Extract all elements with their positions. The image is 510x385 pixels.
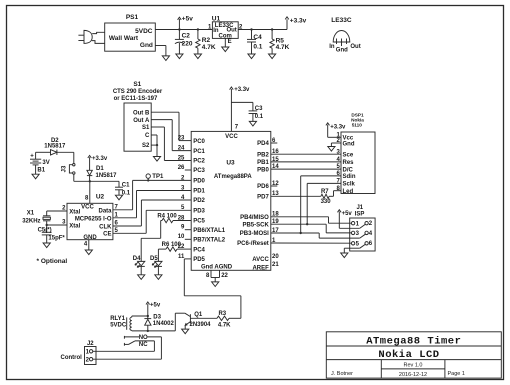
ground S1 <box>153 157 160 162</box>
svg-text:Data: Data <box>98 209 112 215</box>
wire MOSI to ISP pin 4 <box>319 233 365 238</box>
wire R4 to D4 <box>141 221 161 262</box>
svg-text:PB2: PB2 <box>257 152 269 158</box>
svg-text:2N3904: 2N3904 <box>190 322 212 328</box>
wire U2 pin1 to PD1 <box>113 191 191 218</box>
svg-text:0.1: 0.1 <box>253 44 262 51</box>
wire R6 to D5 <box>157 249 159 261</box>
svg-text:PD2: PD2 <box>193 198 205 204</box>
wire PB0 to D/C <box>271 168 341 170</box>
wire 3.3V node to C1 <box>90 180 119 182</box>
wire SCK to ISP pin 3 <box>326 224 351 233</box>
title block <box>326 332 501 378</box>
svg-text:+3.3v: +3.3v <box>234 87 250 93</box>
svg-text:PD3: PD3 <box>193 209 205 215</box>
svg-text:10: 10 <box>178 234 185 240</box>
svg-text:R6 100: R6 100 <box>162 242 182 248</box>
test point TP1 <box>146 174 164 182</box>
pin stub PD6 pin 12 <box>271 185 278 187</box>
U3 left pin labels <box>193 139 226 263</box>
wire Q1 emitter to ground <box>184 325 186 329</box>
svg-text:PC4: PC4 <box>193 247 205 253</box>
ground U3 <box>212 282 219 287</box>
svg-text:+: + <box>30 154 34 160</box>
pin stub PD4 pin 6 <box>271 142 278 144</box>
pin stub PC3 pin 26 <box>185 169 191 171</box>
svg-text:PD5: PD5 <box>193 257 205 263</box>
wire NO to J2 pin 2 <box>93 337 161 359</box>
svg-text:Control: Control <box>61 355 83 361</box>
svg-text:CE: CE <box>103 231 111 237</box>
svg-text:PD7: PD7 <box>257 195 269 201</box>
ground C4 <box>248 54 255 59</box>
svg-text:RLY1: RLY1 <box>110 316 125 322</box>
wire PB2 to Sce <box>271 153 341 155</box>
wire X1 to U2 Xtal pin 2 <box>47 210 67 212</box>
ground C1 <box>115 195 122 200</box>
power flag +3.3V MCU <box>230 87 250 93</box>
crystal X1 <box>22 211 50 225</box>
power flag +5V <box>178 16 194 31</box>
power flag +5V relay <box>146 302 161 316</box>
wire S1 switch to PC2 <box>151 127 191 161</box>
capacitor C2 <box>175 30 193 55</box>
svg-text:330: 330 <box>321 199 332 205</box>
wire Sclk to PB5 SCK <box>271 183 341 225</box>
svg-text:5110: 5110 <box>352 122 363 127</box>
wire U2 CLK to PD2 <box>113 200 191 226</box>
regulator U1 <box>208 15 243 39</box>
svg-text:ISP: ISP <box>355 212 365 218</box>
svg-text:PD1: PD1 <box>193 189 205 195</box>
U3 left pin numbers <box>178 136 185 260</box>
U3 right pin numbers <box>272 138 279 268</box>
note optional <box>37 258 68 265</box>
svg-text:R7: R7 <box>321 189 329 195</box>
svg-text:0.1: 0.1 <box>255 114 264 120</box>
title page <box>448 371 465 377</box>
wire U2 Data to PD0 <box>113 180 191 209</box>
svg-text:PB1: PB1 <box>257 160 269 166</box>
svg-text:4.7K: 4.7K <box>276 44 290 51</box>
svg-text:21: 21 <box>272 262 279 268</box>
ground ISP <box>341 253 348 258</box>
pin stub PB7 pin 10 <box>185 238 191 240</box>
svg-text:B1: B1 <box>37 168 45 174</box>
wire D2 to jumper J3 <box>57 152 74 163</box>
title text ATmega88 Timer <box>366 335 461 347</box>
ground Q1 <box>182 329 189 334</box>
wire Q1 collector to relay <box>175 313 185 331</box>
svg-text:Gnd: Gnd <box>343 141 355 147</box>
relay coil RLY1 5VDC <box>110 316 132 331</box>
svg-text:AVCC: AVCC <box>252 257 269 263</box>
capacitor C1 <box>115 181 131 196</box>
svg-text:S2: S2 <box>142 143 150 149</box>
svg-text:In: In <box>329 44 335 50</box>
svg-text:D3: D3 <box>153 315 161 321</box>
svg-text:PB5-SCK: PB5-SCK <box>242 222 269 228</box>
svg-text:5VDC: 5VDC <box>110 322 127 328</box>
wire Sdin to PB3 MOSI <box>271 176 341 234</box>
svg-text:PC6-/Reset: PC6-/Reset <box>237 241 269 247</box>
svg-text:C3: C3 <box>255 106 263 112</box>
resistor R5 <box>270 28 290 54</box>
svg-text:MCP6255 I-O: MCP6255 I-O <box>75 217 112 223</box>
svg-text:NO: NO <box>139 335 148 341</box>
svg-text:S1: S1 <box>142 125 150 131</box>
svg-text:Xtal: Xtal <box>69 209 80 215</box>
wire PD5 to R3 <box>184 259 241 318</box>
ground PS1 <box>162 56 169 61</box>
svg-text:ATmega88 Timer: ATmega88 Timer <box>366 335 461 347</box>
MCU U3 ATmega88PA <box>191 131 271 270</box>
DSP1 pin labels <box>343 136 356 195</box>
svg-text:Out B: Out B <box>133 110 150 116</box>
relay contact NC <box>124 341 154 348</box>
ground U2 <box>85 250 92 255</box>
wire PC6 Reset to ISP pin 5 <box>271 242 352 244</box>
power flag +3.3V RTC <box>88 155 108 170</box>
svg-text:Gnd: Gnd <box>336 47 348 53</box>
svg-text:U2: U2 <box>96 194 105 201</box>
svg-text:1N5817: 1N5817 <box>96 173 118 179</box>
title text Nokia LCD <box>378 349 439 361</box>
connector J1 ISP <box>350 205 375 251</box>
svg-text:CTS 290 Encoder: CTS 290 Encoder <box>113 89 163 95</box>
svg-text:Led: Led <box>343 189 354 195</box>
svg-text:C5(*): C5(*) <box>38 228 52 234</box>
svg-text:X1: X1 <box>27 211 35 217</box>
capacitor C4 <box>247 28 263 54</box>
svg-text:PC2: PC2 <box>193 159 205 165</box>
svg-text:VCC: VCC <box>225 134 238 140</box>
svg-text:TP1: TP1 <box>152 174 164 180</box>
svg-text:23: 23 <box>178 136 185 142</box>
svg-text:Nokia LCD: Nokia LCD <box>378 349 439 361</box>
svg-text:PC1: PC1 <box>193 149 205 155</box>
svg-text:AREF: AREF <box>252 265 269 271</box>
svg-text:CLK: CLK <box>99 224 112 230</box>
power flag +5V ISP <box>338 210 360 229</box>
capacitor C5 <box>38 225 66 243</box>
svg-text:LE33C: LE33C <box>331 17 352 24</box>
wire R3 to Q1 base <box>190 317 217 319</box>
svg-text:PC5: PC5 <box>193 219 205 225</box>
svg-text:Gnd: Gnd <box>140 42 153 49</box>
svg-text:ATmega88PA: ATmega88PA <box>214 174 252 180</box>
svg-text:Page 1: Page 1 <box>448 371 465 377</box>
pin stub PB6 pin 9 <box>185 229 191 231</box>
svg-text:+5v: +5v <box>150 302 161 308</box>
wire J3 to 3.3V node <box>74 174 90 181</box>
svg-text:PB0: PB0 <box>257 167 269 173</box>
svg-text:+3.3v: +3.3v <box>290 18 307 25</box>
power flag +3.3V rail end <box>285 17 306 25</box>
svg-text:J1: J1 <box>356 205 363 211</box>
ground R5 <box>269 54 276 59</box>
wire X1 to U2 Xtal pin 3 <box>46 224 68 226</box>
wire U3 VCC pin 7 <box>231 89 238 131</box>
title date <box>399 372 427 378</box>
svg-text:+5v: +5v <box>342 211 353 217</box>
svg-text:Gnd AGND: Gnd AGND <box>201 264 233 270</box>
LE33C pinout drawing <box>329 17 360 53</box>
svg-text:5VDC: 5VDC <box>135 28 153 35</box>
wire relay top rail <box>132 315 149 317</box>
ground C2 <box>176 54 183 59</box>
svg-text:PD0: PD0 <box>193 179 205 185</box>
ground C3 <box>249 121 256 126</box>
LED D5 <box>150 256 162 275</box>
svg-text:PD6: PD6 <box>257 184 269 190</box>
svg-text:J3: J3 <box>62 165 68 172</box>
svg-text:1N5817: 1N5817 <box>44 144 66 150</box>
ground D4 <box>138 275 145 280</box>
diode D2 1N5817 <box>44 138 66 155</box>
svg-text:+3.3v: +3.3v <box>330 124 346 130</box>
svg-text:D1: D1 <box>96 166 104 172</box>
svg-text:PD4: PD4 <box>257 141 269 147</box>
svg-text:+5v: +5v <box>182 16 193 23</box>
svg-text:4.7K: 4.7K <box>202 44 216 51</box>
wire ISP pin 6 to ground <box>344 248 360 253</box>
AC plug <box>78 30 92 43</box>
wire NC to J2 pin 1 <box>93 341 154 351</box>
svg-text:J. Botner: J. Botner <box>331 371 353 377</box>
resistor R4 <box>157 213 191 222</box>
svg-text:C4: C4 <box>253 34 262 41</box>
svg-text:Rev 1.0: Rev 1.0 <box>404 363 423 369</box>
svg-text:Sce: Sce <box>343 153 354 159</box>
RTC U2 <box>62 194 118 248</box>
wire U1 Com pin E <box>225 38 231 47</box>
svg-text:U3: U3 <box>226 159 235 166</box>
svg-text:PC0: PC0 <box>193 139 205 145</box>
display DSP1 Nokia 5110 <box>341 113 375 194</box>
svg-text:* Optional: * Optional <box>37 258 68 265</box>
svg-text:VCC: VCC <box>81 204 94 210</box>
wire S1 OutB to PC0 <box>151 112 191 140</box>
wire S1 common to ground <box>151 135 158 157</box>
capacitor C3 <box>249 106 264 122</box>
ground U1 <box>222 47 229 52</box>
svg-text:C1: C1 <box>122 182 130 188</box>
diode D1 1N5817 <box>87 166 117 181</box>
svg-text:2016-12-12: 2016-12-12 <box>399 372 427 378</box>
svg-text:0.1: 0.1 <box>122 191 131 197</box>
svg-text:NC: NC <box>139 342 148 348</box>
wire plug to PS1 <box>92 32 105 43</box>
svg-text:22: 22 <box>221 273 228 279</box>
wire PB1 to Res <box>271 161 341 163</box>
svg-text:32KHz: 32KHz <box>22 218 40 224</box>
transistor Q1 2N3904 <box>185 312 211 328</box>
node RTC VCC junction <box>89 180 91 182</box>
battery B1 <box>30 152 50 174</box>
wire U2 GND pin 4 <box>88 240 90 250</box>
svg-text:PB7/XTAL2: PB7/XTAL2 <box>193 238 226 244</box>
svg-text:D4: D4 <box>133 256 141 262</box>
wire VCC to C3 <box>231 102 253 111</box>
svg-text:D/C: D/C <box>343 167 354 173</box>
svg-text:R3: R3 <box>218 311 226 317</box>
svg-text:PB4/MISO: PB4/MISO <box>240 215 269 221</box>
power supply PS1 <box>105 14 156 51</box>
svg-text:J2: J2 <box>87 341 94 347</box>
resistor R7 330 <box>321 189 332 205</box>
DSP1 pin numbers <box>336 132 340 191</box>
svg-text:3V: 3V <box>42 160 49 166</box>
wire 3.3V node to U2 VCC pin 8 <box>85 181 90 203</box>
svg-text:S1: S1 <box>133 81 141 88</box>
ground D5 <box>155 275 162 280</box>
LED D4 <box>133 256 145 275</box>
rotary encoder S1 <box>113 81 163 151</box>
svg-text:Sdin: Sdin <box>343 174 356 180</box>
wire PS1 Gnd <box>155 46 166 56</box>
svg-text:PB6/XTAL1: PB6/XTAL1 <box>193 228 226 234</box>
title author <box>331 371 353 377</box>
ground R2 <box>194 54 201 59</box>
relay contact NO <box>124 335 161 342</box>
wire Led to R7 <box>329 191 341 197</box>
resistor R2 <box>196 28 216 54</box>
ground DSP1 <box>328 147 335 152</box>
svg-text:25: 25 <box>178 155 185 161</box>
svg-text:Q1: Q1 <box>194 312 203 318</box>
U3 right pin labels <box>237 141 269 271</box>
svg-text:C: C <box>145 133 150 139</box>
title rev <box>404 363 423 369</box>
svg-text:Sclk: Sclk <box>343 182 356 188</box>
svg-text:PC3: PC3 <box>193 168 205 174</box>
resistor R3 <box>217 311 231 329</box>
wire DSP1 Gnd pin 2 <box>331 143 341 147</box>
power flag +3.3V LCD <box>326 123 346 138</box>
svg-text:20: 20 <box>272 254 279 260</box>
svg-text:R4 100: R4 100 <box>157 213 177 219</box>
svg-text:PS1: PS1 <box>126 14 139 21</box>
svg-text:D5: D5 <box>150 256 158 262</box>
svg-text:E: E <box>228 39 232 45</box>
wire U2 CE to PD3 <box>113 210 191 233</box>
svg-text:Wall Wart: Wall Wart <box>109 35 139 42</box>
wire U3 Gnd AGND pins 8 22 <box>206 270 229 282</box>
wire relay bottom rail <box>132 330 176 332</box>
svg-text:15pF*: 15pF* <box>48 236 65 242</box>
svg-text:Xtal: Xtal <box>69 223 80 229</box>
svg-text:+3.3v: +3.3v <box>92 156 108 162</box>
ground B1 <box>32 174 39 179</box>
connector J2 Control <box>61 341 97 364</box>
wire PB4 MISO to ISP pin 1 <box>271 217 352 223</box>
svg-text:C2: C2 <box>182 32 191 39</box>
diode D3 1N4002 <box>144 315 174 331</box>
svg-text:24: 24 <box>178 146 185 152</box>
svg-text:U1: U1 <box>212 15 221 22</box>
svg-text:or EC11-1S-197: or EC11-1S-197 <box>114 96 158 102</box>
svg-text:1N4002: 1N4002 <box>153 321 175 327</box>
wire S1 OutA to PC1 <box>151 120 191 151</box>
svg-text:4.7K: 4.7K <box>218 322 231 328</box>
svg-text:GND: GND <box>83 235 97 241</box>
svg-text:26: 26 <box>178 165 185 171</box>
wire B1 to D2 <box>36 151 51 153</box>
wire 5V rail <box>155 19 287 29</box>
svg-text:220: 220 <box>182 40 193 47</box>
svg-text:Out A: Out A <box>133 118 150 124</box>
svg-text:Res: Res <box>343 160 355 166</box>
svg-text:Out: Out <box>350 44 360 50</box>
wire R7 to PD7 <box>271 195 321 197</box>
ground C5 <box>43 243 50 248</box>
jumper J3 <box>62 164 75 175</box>
svg-text:PB3-MOSI: PB3-MOSI <box>240 231 269 237</box>
resistor R6 <box>158 242 191 251</box>
